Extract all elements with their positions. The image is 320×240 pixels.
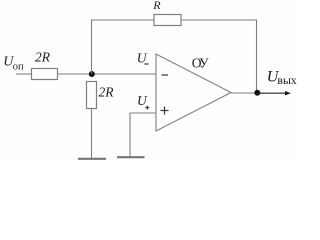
svg-text:R: R — [152, 0, 161, 12]
wire noninverting input — [130, 112, 156, 114]
svg-text:2R: 2R — [99, 85, 115, 100]
svg-text:U: U — [137, 50, 148, 65]
op-amp noninverting pin plus sign — [161, 107, 169, 115]
resistor R1 feedback — [152, 0, 181, 25]
node U+ label — [137, 93, 149, 110]
wire input left — [16, 73, 32, 75]
svg-text:оп: оп — [13, 62, 24, 73]
node Uоп input label — [3, 54, 24, 72]
ground noninverting input — [117, 156, 145, 158]
wire feedback top right — [181, 19, 257, 21]
wire feedback left vertical — [91, 20, 93, 74]
node junction dot — [89, 71, 95, 77]
wire feedback right vertical — [256, 20, 258, 93]
op-amp U1 triangle — [156, 54, 231, 131]
node output dot — [254, 90, 260, 96]
resistor 2R shunt — [87, 82, 115, 109]
svg-text:ОУ: ОУ — [192, 55, 209, 70]
resistor 2R input — [32, 49, 58, 79]
wire output arrow — [257, 91, 291, 95]
svg-text:вых: вых — [277, 73, 297, 87]
node U− label — [137, 50, 149, 65]
wire shunt resistor to ground — [91, 109, 93, 160]
wire output — [231, 92, 257, 94]
wire noninverting input to ground — [129, 113, 131, 157]
op-amp inverting pin minus sign — [162, 74, 169, 76]
svg-text:2R: 2R — [35, 49, 51, 64]
wire input to inverting input — [58, 73, 157, 75]
ground below shunt resistor — [78, 158, 106, 160]
node Uвых output label — [267, 68, 297, 87]
svg-text:U: U — [137, 93, 148, 108]
wire feedback top left — [91, 19, 154, 21]
